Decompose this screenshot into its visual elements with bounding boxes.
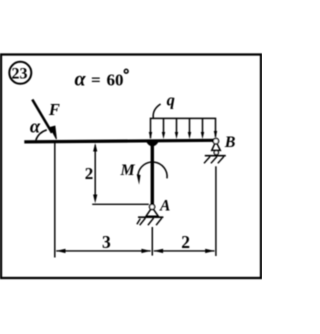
- svg-text:B: B: [224, 134, 236, 151]
- svg-text:60: 60: [107, 71, 124, 90]
- svg-text:23: 23: [12, 65, 28, 82]
- svg-text:2: 2: [85, 164, 94, 183]
- svg-text:α: α: [75, 69, 87, 91]
- svg-text:α: α: [30, 118, 41, 138]
- svg-text:q: q: [167, 90, 175, 109]
- svg-text:F: F: [48, 100, 60, 119]
- svg-text:3: 3: [102, 232, 111, 252]
- svg-text:=: =: [91, 71, 101, 90]
- svg-text:2: 2: [181, 232, 190, 252]
- svg-text:A: A: [159, 198, 170, 215]
- svg-text:M: M: [120, 162, 136, 179]
